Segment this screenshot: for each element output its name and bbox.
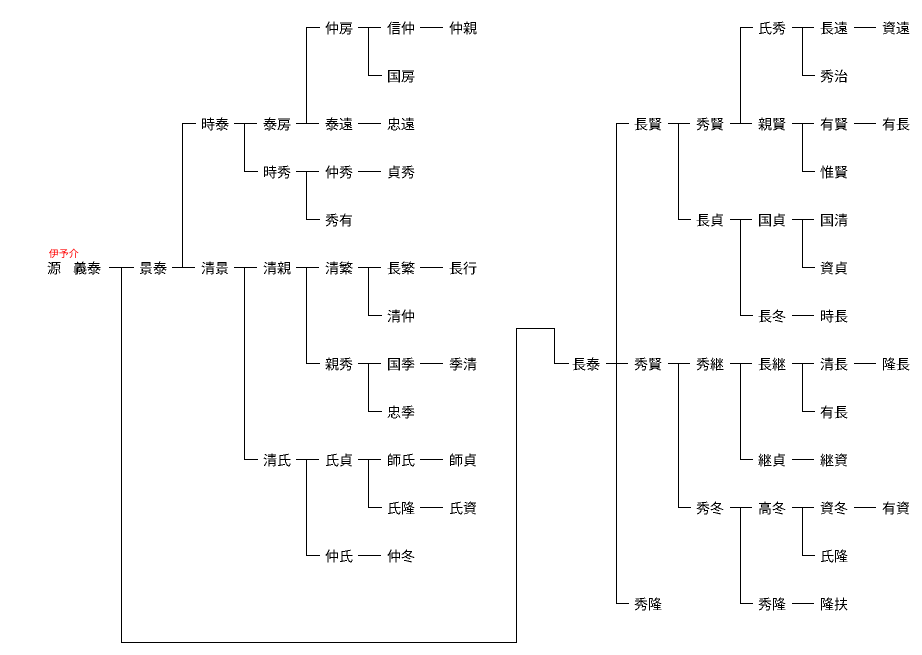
wire 泰房 to children [296,123,319,124]
node 有賢 [821,118,848,131]
wire 秀隆 to children [792,603,814,604]
wire 清長 to children [854,363,876,364]
wire 氏貞 to children [358,459,381,460]
node 清仲 [388,310,415,323]
node 資遠 [883,22,910,35]
wire 氏隆 to children [420,507,443,508]
wire 親賢 to children [792,123,814,124]
node 親賢 [758,118,785,131]
wire 長遠 to children [854,27,876,28]
node 忠季 [388,406,415,419]
wire long route: vertical up [516,328,517,643]
node 秀隆 [758,598,785,611]
node 秀隆 [634,598,661,611]
wire 国貞 to children [792,219,814,220]
node 清氏 [264,454,291,467]
node 清親 [264,262,291,275]
node 仲氏 [325,550,352,563]
node 資冬 [821,502,848,515]
node 氏隆 [821,550,848,563]
node 継貞 [758,454,785,467]
wire 長泰 to children [606,363,628,364]
node 長行 [450,262,477,275]
wire 時秀 to children [296,171,319,172]
node 秀賢 [634,358,661,371]
node 信仲 [387,22,414,35]
node 氏資 [450,502,477,515]
node 長賢 [635,118,662,131]
node 資貞 [821,262,847,275]
node 長継 [759,358,786,371]
label 伊予介 (red caption above 源義泰) [49,249,78,258]
node 長貞 [697,214,723,227]
wire 信仲 to children [420,27,443,28]
wire 継貞 to children [792,459,814,460]
wire 清景 to children [234,267,257,268]
node 清繁 [326,262,353,275]
wire 仲房 to children [358,27,381,28]
wire 源義泰-景泰 [109,267,134,268]
node 有資 [883,502,910,515]
node 高冬 [759,502,786,515]
node 氏貞 [326,454,352,467]
wire long route: stub into 長泰 [554,363,569,364]
node 国季 [388,358,414,371]
node 景泰 [140,262,167,275]
wire 資冬 to children [854,507,876,508]
node 長泰 [573,358,600,371]
node 仲親 [449,22,476,35]
node 仲秀 [325,166,352,179]
node 継資 [820,454,847,467]
node 源義泰 [48,262,101,275]
wire 時泰 to children [234,123,257,124]
wire 清氏 to children [296,459,319,460]
wire 長冬 to children [792,315,814,316]
node 師氏 [388,454,414,467]
node 仲冬 [387,550,414,563]
wire 長貞 to children [730,219,752,220]
wire 秀賢(下) to children [668,363,690,364]
node 隆長 [883,358,909,371]
node 仲房 [325,22,352,35]
wire 泰遠 to children [358,123,381,124]
node 秀有 [325,214,352,227]
wire 国季 to children [420,363,443,364]
wire 長賢 to children [668,123,690,124]
node 貞秀 [388,166,415,179]
wire 長繁 to children [420,267,443,268]
wire 有賢 to children [854,123,876,124]
wire 氏秀 to children [792,27,814,28]
node 長遠 [821,22,848,35]
wire 師氏 to children [420,459,443,460]
node 清景 [202,262,229,275]
wire 高冬 to children [792,507,814,508]
node 親秀 [325,358,352,371]
wire 秀賢(上) to children [730,123,752,124]
node 師貞 [450,454,476,467]
node 時長 [821,310,847,323]
wire 秀冬 to children [730,507,752,508]
node 泰遠 [325,118,352,131]
node 有長 [883,118,910,131]
node 時泰 [202,118,229,131]
node 秀治 [820,70,847,83]
node 氏秀 [759,22,786,35]
node 隆扶 [821,598,847,611]
node 清長 [821,358,848,371]
wire long route: bottom horizontal [121,642,517,643]
wire 長継 to children [792,363,814,364]
node 惟賢 [820,166,847,179]
node 忠遠 [388,118,415,131]
wire 仲氏 to children [358,555,381,556]
wire 親秀 to children [358,363,381,364]
wire long route: down to 長泰 row [554,328,555,364]
wire 景泰 to children [172,267,195,268]
node 秀冬 [696,502,723,515]
wire long route: down from 義泰 line [121,267,122,643]
wire 仲秀 to children [358,171,381,172]
node 国房 [388,70,414,82]
node 秀継 [696,358,723,371]
node 国貞 [759,214,785,227]
node 国清 [821,214,847,227]
node 氏隆 [388,502,415,515]
node 長繁 [388,262,415,275]
node 有長 [821,406,848,419]
wire 清親 to children [296,267,319,268]
node 季清 [449,358,476,371]
node 泰房 [263,118,290,131]
wire 秀継 to children [730,363,752,364]
node 時秀 [264,166,290,179]
node 秀賢 [696,118,723,131]
wire 清繁 to children [358,267,381,268]
node 長冬 [759,310,786,323]
wire long route: top horizontal [516,328,555,329]
